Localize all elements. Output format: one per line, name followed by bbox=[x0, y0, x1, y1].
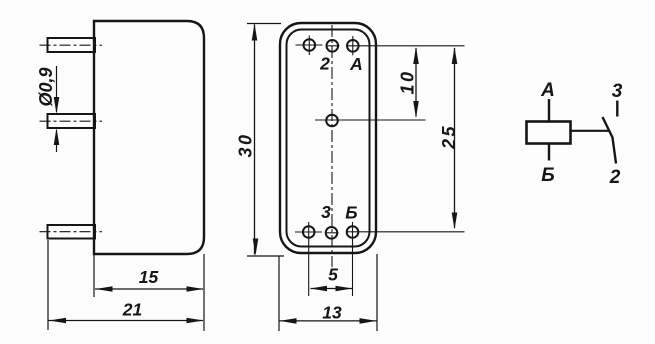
extension lines for 13 bbox=[279, 254, 377, 331]
vertical axis centerline bbox=[331, 25, 333, 267]
extension line (body left edge, for 15) bbox=[93, 254, 95, 297]
svg-text:21: 21 bbox=[122, 300, 142, 320]
svg-text:A: A bbox=[540, 80, 555, 101]
dimension 25 bbox=[452, 47, 458, 230]
svg-text:13: 13 bbox=[322, 303, 342, 323]
pin 3 (side view) bbox=[40, 225, 103, 239]
pin 2 (side view) bbox=[40, 114, 103, 128]
center hole bbox=[326, 115, 338, 127]
pin hole A (top right) bbox=[347, 36, 359, 55]
extension lines for 30 bbox=[247, 24, 284, 257]
extension line center row (for 10) bbox=[315, 119, 426, 121]
dimension leader Ø0,9 bbox=[56, 66, 58, 152]
dimension 15 bbox=[95, 286, 204, 292]
dimension 30 bbox=[252, 24, 259, 256]
wire (coil to contact blade) bbox=[571, 130, 609, 132]
svg-text:15: 15 bbox=[139, 267, 159, 287]
pin hole Б (bottom right) bbox=[347, 222, 359, 296]
svg-text:30: 30 bbox=[236, 132, 256, 157]
svg-text:25: 25 bbox=[439, 124, 459, 150]
dimension 13 bbox=[280, 318, 377, 324]
extension line bottom row (for 25) bbox=[346, 231, 465, 233]
relay case inner outline (front view) bbox=[287, 30, 370, 247]
pin 1 (side view) bbox=[40, 38, 103, 52]
coil K1 bbox=[527, 122, 571, 144]
svg-text:2: 2 bbox=[319, 54, 330, 74]
relay body (side view) bbox=[94, 21, 204, 254]
svg-text:Б: Б bbox=[541, 165, 554, 186]
pin hole middle bottom bbox=[325, 227, 339, 239]
dimension 10 bbox=[413, 47, 419, 118]
extension line (body right edge, for 15 and 21) bbox=[203, 254, 205, 331]
wire (coil to terminal Б) bbox=[548, 144, 550, 161]
extension line top row (for 10 and 25) bbox=[346, 45, 465, 47]
relay case outer outline (front view) bbox=[280, 23, 376, 253]
svg-text:2: 2 bbox=[609, 167, 621, 188]
arrow Ø0,9 top bbox=[54, 97, 60, 114]
wire (terminal A to coil) bbox=[548, 99, 550, 122]
svg-text:Ø0,9: Ø0,9 bbox=[36, 67, 56, 106]
contact blade (switch) bbox=[603, 117, 617, 164]
svg-text:5: 5 bbox=[328, 265, 338, 285]
pin hole 3 (bottom left) bbox=[295, 222, 322, 296]
svg-text:3: 3 bbox=[321, 202, 331, 222]
svg-text:3: 3 bbox=[612, 81, 623, 102]
svg-text:A: A bbox=[349, 54, 363, 74]
wire (terminal 3 lead) bbox=[616, 101, 618, 117]
mounting hole top-left bbox=[296, 36, 323, 56]
dimension 5 bbox=[310, 286, 353, 292]
extension line (pin tip, for 21) bbox=[47, 240, 49, 330]
arrow Ø0,9 bottom bbox=[54, 128, 60, 145]
svg-text:10: 10 bbox=[398, 69, 418, 94]
dimension 21 bbox=[49, 318, 204, 324]
svg-text:Б: Б bbox=[345, 203, 357, 223]
pin hole 2 (top middle) bbox=[326, 40, 340, 52]
